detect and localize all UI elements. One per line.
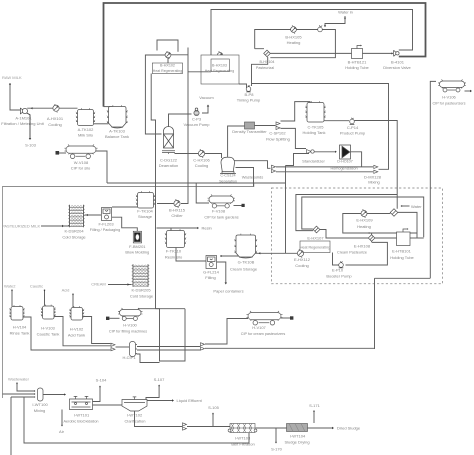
wire: H-CIP1 supply line 1: [137, 346, 201, 348]
wire: to booster pump: [333, 253, 339, 266]
svg-text:Heat Regenerating: Heat Regenerating: [153, 69, 182, 73]
outlet block H-V107: [290, 316, 293, 319]
svg-text:F-TK104: F-TK104: [137, 209, 153, 214]
arrowhead pasteurized milk: [62, 225, 64, 227]
wire: dried sludge out: [308, 427, 333, 429]
wire: diversion valve forward loop to B-HX103 (inner top loop): [211, 10, 413, 56]
wire: holding tube to diversion valve: [363, 52, 393, 54]
svg-text:Cold Storage: Cold Storage: [62, 235, 86, 240]
wire: resin line into silo: [170, 228, 172, 231]
arrowhead S-170: [275, 442, 277, 444]
wire: deaerator to C-HX106: [175, 153, 199, 155]
wire: holding tank to product pump: [324, 120, 349, 122]
wire: H-V106 down to CIP return: [430, 81, 436, 278]
aeration basin I-WT101: [70, 396, 93, 409]
stream split to mixer: [272, 165, 276, 172]
standardizer split: [307, 150, 315, 154]
wire: separator wastesolids down to border: [236, 168, 254, 187]
svg-text:Chiller: Chiller: [171, 213, 183, 218]
svg-text:H-V102: H-V102: [70, 327, 84, 332]
wire: E-HX108 to holding tube: [375, 237, 397, 239]
svg-text:I-WT101: I-WT101: [74, 413, 90, 418]
svg-text:E-HX109: E-HX109: [356, 218, 373, 223]
label box B-HX103: [211, 59, 229, 72]
svg-text:Milk Silo: Milk Silo: [78, 133, 94, 138]
svg-text:Deaeration: Deaeration: [159, 163, 179, 168]
svg-text:H-CIP1: H-CIP1: [122, 355, 136, 360]
tank A-TK102 milk silo: [76, 108, 95, 125]
svg-text:H-V107: H-V107: [252, 325, 266, 330]
filling machine G-FL214: [206, 256, 217, 269]
tank H-V102 acid tank: [69, 306, 84, 320]
cold storage K-DSR204: [68, 205, 85, 228]
wire: extra feed line to mixer: [11, 397, 35, 455]
blow molder F-BM201: [133, 231, 141, 243]
wire: resin feed line: [157, 227, 199, 229]
svg-text:I-WT103: I-WT103: [235, 436, 251, 441]
svg-text:Rinse Tank: Rinse Tank: [10, 331, 30, 336]
wire: flow split to holding tank C-TK105: [281, 102, 311, 121]
svg-text:A-TK103: A-TK103: [109, 129, 126, 134]
arrowhead mixer inlet 1: [34, 390, 36, 392]
wire: hot water heating loop around B-HX105: [255, 30, 336, 58]
arrowhead liquid effluent: [172, 399, 174, 401]
wire: A-HX101 to milk silo: [59, 107, 77, 109]
wire: H-V100 inlet: [110, 317, 120, 319]
svg-text:Dried Sludge: Dried Sludge: [337, 426, 361, 431]
svg-text:Wastesolids: Wastesolids: [242, 175, 263, 180]
arrowhead cream to storage: [259, 252, 261, 254]
circulation pump on heating loop: [318, 25, 323, 32]
wire: H-V106 outlet right: [465, 90, 471, 92]
wire: mixer to aeration basin: [43, 394, 66, 396]
section 2 border (filling/CIP section): [3, 183, 254, 398]
svg-text:Caustic Tank: Caustic Tank: [37, 332, 60, 337]
svg-text:S-107: S-107: [154, 377, 165, 382]
wire: pasteurized milk into cold storage: [41, 225, 69, 227]
wire: clarifier liquid effluent: [147, 400, 173, 402]
heat exchanger A-HX101 cooling: [53, 104, 59, 112]
arrowhead into homogenizer: [335, 151, 337, 153]
svg-text:E-HTB101: E-HTB101: [392, 249, 411, 254]
wire: belt filter to sludge dryer: [256, 427, 287, 429]
wire: CIP return bottom of cream section: [375, 277, 431, 279]
wire: B-HX102 circle to label box: [167, 58, 169, 63]
wire: into B-HX103 inner box: [188, 71, 211, 73]
wire: water diamond to holding tube outlet: [398, 212, 417, 237]
wire: air into basin: [61, 410, 63, 426]
centrifugal separator C-CS124: [220, 157, 236, 173]
wire: water diamond to heating box: [390, 211, 391, 213]
wire: deaerator bottom: [168, 153, 170, 154]
wire: merge to H-CIP1: [116, 346, 130, 348]
pump E-P10 booster pump: [339, 261, 344, 268]
tank G-TK108 cream storage: [234, 234, 257, 258]
mixer I-WT100: [37, 388, 43, 401]
wire: water into rinse tank: [11, 290, 13, 307]
svg-text:Resin: Resin: [202, 226, 212, 231]
tank F-TK110 resin silo: [165, 229, 186, 247]
wire: wastewater inlet: [17, 383, 35, 392]
svg-text:Water: Water: [411, 204, 422, 209]
wire: heating loop junction into E-HX108: [371, 233, 373, 235]
wire: cream loop inner line to E-HX107: [296, 195, 397, 231]
wire: long line timing pump area to D-MX128 right side: [252, 84, 389, 170]
svg-text:Liquid Effluent: Liquid Effluent: [177, 398, 203, 403]
svg-text:B-4101: B-4101: [391, 60, 405, 65]
svg-text:Cream Pasteurize: Cream Pasteurize: [337, 251, 367, 255]
svg-text:B-HTB121: B-HTB121: [348, 60, 367, 65]
wire: long vertical from B-HX102 to chiller B-HX115: [181, 48, 188, 204]
belt filter I-WT103: [228, 424, 257, 433]
svg-text:D-HO107: D-HO107: [337, 159, 353, 163]
inlet block H-V100: [106, 317, 109, 320]
svg-text:C-TK105: C-TK105: [307, 124, 324, 129]
pump C-P3 vacuum pump: [194, 108, 199, 116]
wire: raw milk inlet: [10, 83, 22, 110]
arrowhead mixer inlet 2: [34, 393, 36, 395]
wire: cream storage to filler: [220, 255, 239, 257]
svg-text:CIP for tank gardens: CIP for tank gardens: [204, 216, 238, 220]
cream pasteurization section dashed border: [272, 188, 443, 284]
flow splitter C-SP102: [276, 122, 280, 130]
tank F-TK104 storage: [136, 191, 155, 208]
pump A-1M101 filtration/metering unit: [20, 108, 27, 114]
svg-text:E-P10: E-P10: [332, 268, 344, 273]
wire: filler to blow molder: [112, 217, 137, 231]
svg-text:B-HX105: B-HX105: [285, 35, 302, 40]
svg-text:Holding Tube: Holding Tube: [345, 65, 369, 70]
wire: B-HX102 top hook: [157, 40, 178, 52]
homogenizer D-HO107: [340, 145, 351, 159]
wire: holding tube outlet: [410, 237, 424, 239]
svg-text:Wastewater: Wastewater: [8, 377, 30, 382]
wire: feed into F-V108: [196, 183, 209, 203]
svg-text:CIP for filling machines: CIP for filling machines: [109, 330, 147, 334]
wire: cream down to storage tank: [285, 166, 287, 254]
wire: H-CIP1 to CIP loop bottom: [137, 354, 160, 363]
wire: homogenizer outlet to mixer line: [351, 152, 362, 167]
svg-text:K-DSR205: K-DSR205: [131, 288, 151, 293]
wire: S-104 vent: [93, 387, 101, 402]
arrowhead paper containers: [225, 283, 227, 285]
svg-text:Booster Pump: Booster Pump: [326, 274, 352, 279]
svg-text:Holding Tube: Holding Tube: [390, 255, 414, 260]
diversion valve B-4101: [394, 50, 399, 56]
svg-text:I-WT100: I-WT100: [32, 402, 48, 407]
svg-text:Filling: Filling: [205, 275, 215, 280]
wire: B-HX103 to timing pump: [239, 84, 247, 89]
holding tube B-HTB121: [352, 46, 363, 59]
svg-text:Acid: Acid: [62, 288, 70, 293]
inlet block W-V108: [56, 151, 60, 155]
wire: CIP waste into wastewater mixer: [3, 393, 36, 395]
outlet block F-V108: [242, 204, 245, 207]
wire: heating loop top right: [367, 213, 390, 215]
wire: metering unit to A-HX101: [27, 107, 53, 109]
wire: filler to cold storage: [85, 214, 102, 216]
svg-text:B-P8: B-P8: [245, 92, 255, 97]
clarifier I-WT102: [122, 397, 147, 411]
holding tube E-HTB101: [397, 229, 411, 246]
svg-text:C-DG122: C-DG122: [160, 158, 178, 163]
svg-text:C-HX106: C-HX106: [193, 158, 210, 163]
wire: CIP return line bottom: [205, 347, 375, 349]
wire: resin silo to filler G-FL214: [176, 248, 206, 262]
svg-text:C-P14: C-P14: [347, 125, 359, 130]
svg-text:Homogenization: Homogenization: [330, 166, 357, 170]
outer box B-HX103: [201, 55, 239, 84]
svg-text:B-HX102: B-HX102: [160, 64, 175, 68]
wire: cream loop outer line to holding tube return: [302, 197, 424, 237]
arrowhead dried sludge: [332, 427, 334, 429]
svg-text:Storage: Storage: [138, 214, 153, 219]
density transmitter: [245, 122, 255, 129]
tank H-V103 caustic tank: [41, 305, 56, 319]
pump C-P14 product pump: [350, 118, 355, 125]
svg-text:C-SP102: C-SP102: [269, 131, 286, 136]
svg-text:Density Transmitter: Density Transmitter: [232, 129, 267, 134]
sludge merge arrows: [183, 423, 187, 430]
svg-text:F-V108: F-V108: [212, 209, 226, 214]
vessel H-V100 CIP for filling machines: [118, 308, 143, 320]
vessel H-V107 CIP for cream pasteurizers: [247, 311, 283, 325]
wire: belt filtrate recycle to mixer: [24, 397, 249, 443]
svg-text:Mixing: Mixing: [368, 180, 380, 185]
heat exchanger E-HX109 heating: [361, 210, 367, 218]
label box E-HX107: [300, 241, 330, 253]
svg-text:Standardizer: Standardizer: [302, 159, 325, 164]
wire: E-HX107 to E-HX108: [320, 230, 368, 239]
svg-text:Pasteurizal: Pasteurizal: [256, 66, 274, 70]
heat exchanger B-HX105 heating: [291, 26, 297, 33]
svg-text:A-1M101: A-1M101: [15, 116, 32, 121]
svg-text:Cream Storage: Cream Storage: [230, 267, 258, 272]
svg-text:E-HX112: E-HX112: [294, 257, 311, 262]
arrowhead S-171: [313, 410, 315, 412]
svg-text:Cooling: Cooling: [295, 263, 309, 268]
heat exchanger B-HX115 chiller: [174, 200, 180, 208]
arrowhead water in: [324, 25, 326, 27]
wire: acid into acid tank: [72, 294, 74, 308]
arrowhead S-104: [99, 386, 101, 388]
deaerator C-DG122: [162, 127, 175, 153]
wire: split branch to mixer lower: [276, 171, 373, 173]
filling machine F-FL203: [102, 208, 112, 221]
CIP split arrows right: [201, 343, 205, 351]
svg-text:F-FL203: F-FL203: [98, 222, 114, 227]
wire: B-HX102 to deaerator feed: [145, 55, 165, 134]
svg-text:Product Pump: Product Pump: [340, 131, 366, 136]
svg-text:C-CS124: C-CS124: [220, 174, 235, 178]
svg-text:Blow Molding: Blow Molding: [125, 250, 149, 255]
heat exchanger B-HX103 heat regenerating: [217, 52, 223, 59]
wire: standardizer to homogenizer: [314, 151, 336, 153]
tank A-TK103 balance tank: [107, 105, 128, 128]
svg-text:Balance Tank: Balance Tank: [105, 134, 129, 139]
cold storage K-DSR205: [132, 264, 150, 287]
svg-text:Vacuum Pump: Vacuum Pump: [184, 122, 211, 127]
svg-text:Mixing: Mixing: [34, 408, 46, 413]
svg-text:CIP for pasteurizers: CIP for pasteurizers: [432, 101, 465, 105]
wire: S-105 riser: [212, 414, 214, 427]
svg-text:B-HX115: B-HX115: [169, 208, 186, 213]
svg-text:Wate2: Wate2: [4, 284, 16, 289]
svg-text:Cold Storage: Cold Storage: [130, 294, 154, 299]
wire: density transmitter to flow split: [255, 125, 276, 127]
vessel W-V108 CIP for silo: [65, 145, 98, 159]
wire: standardizer cream out: [286, 154, 310, 166]
svg-text:Timing Pump: Timing Pump: [237, 98, 261, 103]
svg-text:Filling / Packaging: Filling / Packaging: [90, 228, 120, 232]
svg-text:CIP for cream pasteurizers: CIP for cream pasteurizers: [241, 332, 286, 336]
wire: S-107 vent: [146, 386, 159, 400]
wire: timing pump up to pasteurizer B-HX104: [252, 57, 268, 86]
svg-text:Heat Regenerating: Heat Regenerating: [205, 69, 234, 73]
wire: chiller to storage tank: [157, 203, 174, 205]
arrowhead Air: [61, 425, 63, 427]
svg-text:F-BM201: F-BM201: [129, 244, 146, 249]
wire: S-103 purge stream: [26, 113, 30, 139]
arrowhead cream: [128, 283, 130, 285]
wire: milk silo to balance tank: [94, 123, 109, 125]
svg-text:Holding Tank: Holding Tank: [302, 130, 325, 135]
svg-text:B-HX103: B-HX103: [212, 64, 227, 68]
wire: S-171 vent: [313, 412, 315, 424]
wire: clarifier sludge out: [135, 411, 183, 427]
vessel F-V108 CIP for tank gardens: [208, 195, 236, 209]
wire: water in feed: [325, 16, 345, 26]
svg-text:E-HX107: E-HX107: [307, 235, 324, 240]
wire: caustic into caustic tank: [44, 290, 46, 306]
wire: rinse tank to CIP merge: [23, 317, 111, 350]
wire: filler to paper containers: [217, 262, 226, 283]
CIP merge arrows: [111, 343, 115, 351]
svg-text:S-104: S-104: [96, 378, 107, 383]
wire: B-HX104 to holding tube: [270, 52, 351, 54]
wire: E-HX108 bottom port: [371, 241, 373, 242]
wire: vacuum pump exhaust: [202, 106, 208, 113]
wire: recycle into balance tank top: [104, 106, 113, 108]
tank C-TK105 holding tank: [305, 101, 325, 122]
wire: deaerator to vacuum pump: [169, 114, 192, 128]
wire: W-V108 CIP silo return: [96, 151, 107, 183]
wire: product pump long line down to water diamond: [355, 121, 398, 209]
arrowhead vacuum: [207, 105, 209, 107]
svg-text:Cooling: Cooling: [48, 122, 62, 127]
svg-text:W-V108: W-V108: [74, 160, 89, 165]
wire: booster pump to E-HX108: [346, 242, 388, 265]
svg-text:Clarification: Clarification: [125, 419, 146, 424]
arrowhead mixer inlet 3: [34, 396, 36, 398]
svg-text:CIP for silo: CIP for silo: [71, 166, 91, 171]
pasteurizer B-HX104: [264, 50, 271, 57]
svg-text:H-V106: H-V106: [442, 95, 456, 100]
svg-text:Paper containers: Paper containers: [213, 289, 243, 294]
svg-text:Cooling: Cooling: [195, 163, 209, 168]
svg-text:RAW MILK: RAW MILK: [2, 75, 22, 80]
arrowhead H-V106 outlet: [470, 90, 472, 92]
wire: long horizontal CIP silo return: [107, 182, 286, 184]
pump B-P8 timing pump: [246, 85, 251, 92]
arrowhead into diversion valve: [392, 52, 394, 54]
heat exchanger B-HX102 heat regenerating: [165, 51, 171, 58]
svg-text:S-105: S-105: [208, 405, 219, 410]
svg-text:Heat Regenerating: Heat Regenerating: [300, 246, 330, 250]
wire: heating loop left/bottom: [343, 214, 417, 234]
svg-text:K-DSR204: K-DSR204: [64, 229, 84, 234]
wire: cream into cold storage: [108, 284, 132, 286]
svg-text:A-HX101: A-HX101: [47, 116, 64, 121]
mixer H-CIP1: [130, 342, 138, 357]
arrowhead S-103: [29, 138, 31, 140]
svg-text:G-TK10B: G-TK10B: [238, 260, 255, 265]
svg-text:A-TK102: A-TK102: [78, 127, 95, 132]
wire: flow split skim branch to standardizer: [281, 128, 307, 148]
wire: long vertical from B-HX102 down left side: [151, 74, 155, 309]
wire: diversion valve recycle to balance tank (outer top loop): [104, 3, 426, 107]
arrowhead into filler: [220, 255, 222, 257]
svg-text:S-171: S-171: [309, 403, 320, 408]
svg-text:Vacuum: Vacuum: [199, 95, 214, 100]
arrowhead resin: [197, 227, 199, 229]
wire: S-170 drop: [275, 428, 277, 442]
heat exchanger E-HX112 cooling: [297, 249, 303, 257]
svg-text:Diversion Valve: Diversion Valve: [383, 65, 411, 70]
water mixing diamond cream loop: [390, 209, 398, 217]
svg-text:CREAM: CREAM: [91, 282, 105, 287]
label box B-HX102: [152, 63, 182, 74]
wire: H-V107 outlet: [281, 317, 290, 319]
svg-text:H-V100: H-V100: [123, 323, 137, 328]
wire: F-V108 outlet: [234, 205, 242, 207]
svg-text:Heating: Heating: [357, 224, 371, 229]
svg-text:Water in: Water in: [338, 10, 353, 15]
wire: CIP supply to H-V107: [205, 319, 248, 345]
vessel H-V106 CIP for pasteurizers: [438, 80, 466, 92]
wire: storage tank to filler: [112, 206, 138, 208]
svg-text:H-V103: H-V103: [41, 326, 55, 331]
wire: separator to cream split: [235, 161, 271, 169]
wire: caustic tank to CIP merge: [54, 317, 111, 346]
svg-text:Acid Tank: Acid Tank: [68, 333, 85, 338]
sludge dryer I-WT104: [287, 424, 308, 432]
pasteurizer E-HX108 cream pasteurizer: [368, 235, 375, 242]
svg-text:S-170: S-170: [271, 447, 282, 452]
svg-text:Aerobic BioOxidation: Aerobic BioOxidation: [63, 420, 98, 424]
svg-text:Flow Splitting: Flow Splitting: [266, 137, 290, 142]
wire: basin to clarifier: [93, 404, 123, 406]
wire: CIP loop rectangle above H-CIP1: [156, 309, 186, 361]
heat exchanger C-HX106 cooling: [198, 150, 204, 158]
wire: separator riser to density transmitter: [228, 126, 245, 158]
tank H-V104 rinse tank: [9, 305, 24, 320]
wire: vertical to CIP merge: [374, 278, 376, 349]
wire: E-HX112 to cream storage G-TK108: [256, 252, 298, 254]
svg-text:H-V104: H-V104: [13, 325, 27, 330]
svg-text:Heating: Heating: [287, 40, 301, 45]
svg-text:S-103: S-103: [25, 143, 36, 148]
wire: water into cream heating: [402, 205, 410, 207]
svg-text:F-TK110: F-TK110: [166, 249, 182, 254]
pasteurizer E-HX107 heat regenerating: [313, 226, 320, 233]
wire: H-CIP1 supply line 2: [137, 349, 201, 351]
svg-text:C-P3: C-P3: [192, 117, 202, 122]
wire: H-V100 outlet to CIP loop: [138, 308, 185, 310]
svg-text:G-FL214: G-FL214: [203, 270, 220, 275]
svg-text:Sludge Drying: Sludge Drying: [284, 440, 309, 445]
svg-text:I-WT104: I-WT104: [290, 434, 306, 439]
